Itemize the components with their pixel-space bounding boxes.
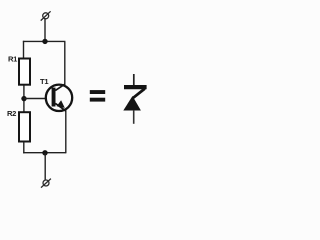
wire base bbox=[24, 98, 46, 100]
wire top terminal to rail bbox=[44, 19, 46, 42]
zener hook diagonal bbox=[133, 89, 145, 98]
equals sign bbox=[90, 90, 105, 102]
zener triangle bbox=[123, 96, 141, 111]
wire to bottom terminal bbox=[44, 153, 46, 181]
svg-text:R2: R2 bbox=[7, 109, 16, 118]
wire rail to R1 bbox=[23, 41, 25, 59]
wire R2 to bottom rail bbox=[23, 142, 25, 154]
resistor R1 bbox=[19, 59, 30, 85]
terminal bottom bbox=[41, 179, 51, 188]
wire collector lead bbox=[64, 41, 66, 85]
resistor R2 bbox=[19, 112, 30, 141]
wire emitter lead bbox=[65, 110, 67, 153]
wire top rail bbox=[23, 40, 66, 42]
zener bottom lead bbox=[133, 110, 135, 124]
svg-text:T1: T1 bbox=[40, 77, 49, 86]
node junction top bbox=[42, 39, 47, 44]
wire R1 to base node bbox=[23, 86, 25, 113]
zener cathode bar bbox=[124, 85, 147, 89]
zener diode bbox=[123, 74, 146, 124]
zener top lead bbox=[133, 74, 135, 87]
wire bottom rail bbox=[23, 152, 66, 154]
svg-text:R1: R1 bbox=[8, 54, 18, 63]
node junction bottom bbox=[42, 150, 47, 155]
node junction base bbox=[21, 96, 26, 101]
terminal top bbox=[41, 11, 51, 20]
transistor T1 bbox=[46, 84, 72, 111]
